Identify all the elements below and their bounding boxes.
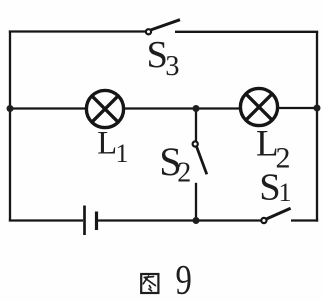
wire bottom rail right segment (291, 219, 318, 221)
node junction middle bottom (193, 217, 200, 224)
wire middle rail left segment (10, 107, 87, 109)
lamp L2 (240, 88, 277, 125)
wire bottom rail middle segment (S1 to battery) (98, 219, 261, 221)
wire middle rail right segment (277, 107, 317, 109)
switch S3 (146, 20, 180, 35)
wire middle branch upper segment (195, 109, 197, 142)
wire right rail (316, 32, 318, 222)
svg-text:3: 3 (165, 51, 179, 82)
svg-text:9: 9 (176, 257, 192, 301)
svg-text:1: 1 (279, 178, 292, 207)
label S1 (259, 167, 291, 209)
wire left rail (9, 32, 11, 221)
caption character 图 (drawn) (141, 274, 158, 293)
label S2 (159, 139, 191, 189)
switch S2 (193, 141, 207, 174)
wire top rail left segment (9, 30, 147, 32)
wire top rail right segment (175, 31, 318, 33)
node junction middle top (193, 105, 200, 112)
wire middle branch lower segment (195, 183, 197, 221)
svg-text:L: L (97, 126, 117, 162)
svg-text:1: 1 (116, 139, 129, 168)
wire middle rail center segment (123, 107, 241, 109)
lamp L1 (86, 90, 123, 127)
wire bottom rail left segment (9, 219, 83, 221)
label L1 (97, 126, 128, 168)
svg-text:S: S (259, 167, 280, 209)
battery (85, 206, 97, 236)
label S3 (147, 34, 180, 82)
switch S1 (261, 208, 290, 223)
label L2 (256, 124, 291, 175)
node junction left (7, 105, 14, 112)
svg-text:2: 2 (177, 158, 191, 189)
node junction right (314, 105, 321, 112)
